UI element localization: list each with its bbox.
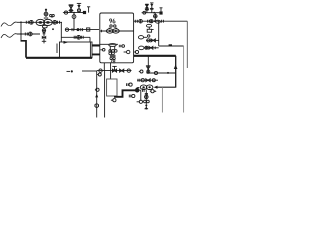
- flange F5: [81, 28, 83, 31]
- separator ellipse below L5: [146, 24, 151, 29]
- gauge G5: [72, 15, 76, 19]
- wire line L2: [17, 33, 40, 35]
- line L9: [158, 86, 176, 88]
- gauge G6: [65, 28, 68, 31]
- wire supply wavy line 2: [1, 34, 17, 38]
- gauge G8a on L5: [150, 20, 153, 23]
- top-right manifold M2: [144, 12, 160, 14]
- flange F1: [26, 21, 28, 24]
- dash and dot mid-left: [67, 70, 73, 72]
- gauge right of corner: [97, 73, 102, 76]
- gauge small left: [139, 70, 143, 73]
- flange right of pump P4: [143, 88, 145, 92]
- gauge G8: [156, 20, 161, 23]
- arrow up on V12: [174, 64, 178, 69]
- block right end M2: [159, 8, 162, 15]
- tank T1 (reservoir box): [60, 42, 93, 58]
- gauge G1 circle with cross: [29, 20, 33, 24]
- flange mid L5: [148, 20, 150, 23]
- valve chain below pump: small ellipse: [42, 25, 47, 28]
- filter box on L3: [87, 28, 90, 31]
- node J5: [167, 72, 169, 74]
- node dot small: [52, 28, 54, 30]
- flange on L8: [138, 79, 140, 82]
- valve glyph on V14 low: [95, 104, 99, 108]
- drop left V11: [147, 56, 149, 66]
- manifold line M1: [65, 12, 86, 14]
- gauge outside box right: [134, 50, 139, 53]
- valve stack E: [146, 66, 151, 74]
- tick on L4: [101, 30, 103, 32]
- wire supply wavy line 1: [1, 22, 17, 26]
- gauge left of manifold: [63, 11, 68, 14]
- dark valve bottom of stem: [145, 105, 149, 109]
- label 96: [110, 19, 116, 23]
- suction line L3: [66, 29, 100, 31]
- tank inner right wall: [89, 42, 91, 58]
- row3 line: [144, 47, 159, 49]
- gauge G7: [139, 19, 143, 23]
- valve2 on L11: [120, 69, 124, 72]
- node J4: [154, 20, 156, 22]
- pump feed line L4: [100, 30, 134, 32]
- gauge on bypass: [77, 35, 81, 39]
- flange-gauge above pump P4: [127, 83, 133, 86]
- wire chain stem: [43, 28, 45, 41]
- right drop V7: [186, 21, 188, 68]
- long discharge line L5: [134, 20, 188, 22]
- pump P3 double ellipse: [140, 85, 153, 90]
- valve on L8: [146, 79, 150, 82]
- circles pair on stem: [144, 100, 150, 103]
- wavy mark 4: [136, 87, 140, 89]
- drop V13 gray: [161, 87, 163, 112]
- flange F7: [162, 20, 164, 23]
- thick top of lower-right unit: [134, 55, 176, 57]
- gauge left end M2: [142, 11, 146, 14]
- drop V14: [96, 71, 98, 118]
- motor dots cluster: [109, 50, 117, 60]
- small box below separator: [147, 29, 153, 32]
- gauge G3: [42, 29, 45, 32]
- stub right of pump P4: [140, 90, 141, 101]
- flange F2: [58, 21, 60, 24]
- valve row2: [151, 39, 155, 42]
- pump P1 double ellipse cluster: [36, 19, 52, 25]
- flange F4: [72, 28, 74, 31]
- flange F3: [43, 32, 46, 33]
- cylinder tank C1: [109, 44, 116, 52]
- wire riser V1: [20, 22, 22, 41]
- line L10: [82, 70, 97, 72]
- arrow tick on L6: [169, 44, 172, 46]
- stem below pump P3: [145, 90, 147, 110]
- separator ellipse E2: [138, 35, 150, 39]
- gauge G4 on L2: [28, 32, 32, 36]
- flange row3b: [154, 47, 156, 50]
- gauge below pump P4: [137, 100, 143, 103]
- glyphs right of cylinder: [119, 45, 124, 48]
- pipe connector box to manifold left: [103, 63, 105, 71]
- gauge2 on L11: [127, 69, 130, 72]
- sensor stem above pump: [44, 9, 48, 20]
- drop right V12: [175, 56, 177, 88]
- arrow up on V14: [95, 94, 98, 98]
- thick pipe from accumulator: [114, 90, 135, 97]
- drop V15: [104, 71, 106, 118]
- valve cluster under label: [109, 25, 118, 28]
- separator ellipse row3: [139, 46, 144, 50]
- pipe connector box to manifold mid: [110, 63, 112, 71]
- twin pilot circles: [50, 15, 55, 18]
- gauge row3: [145, 46, 148, 49]
- valve dark bowtie: [42, 36, 46, 40]
- flange on bypass: [74, 36, 76, 39]
- flange on L2: [25, 33, 27, 36]
- right drop V10 gray: [183, 46, 185, 113]
- gauge left in box: [100, 49, 105, 52]
- valve stack A: [69, 5, 74, 13]
- block right end of manifold: [83, 11, 86, 14]
- valve stack D (relief): [150, 3, 154, 13]
- gauge row2: [147, 39, 150, 42]
- valve row3: [149, 46, 153, 49]
- valve stack B (relief): [77, 3, 81, 12]
- valve T on L11: [112, 66, 116, 72]
- flange-gauge below pump P4: [129, 94, 135, 97]
- bypass line above tank: [61, 37, 90, 42]
- pipe drop V6: [73, 13, 75, 30]
- gauge2 on L8: [152, 79, 155, 82]
- node dark dot on L3: [77, 28, 80, 31]
- line L7: [150, 72, 176, 74]
- under-box manifold L11: [97, 70, 132, 72]
- arrow flow right on tank top: [64, 41, 69, 44]
- stub pair tank right top: [92, 44, 100, 47]
- gauge on V15: [111, 99, 116, 102]
- pipe drop V4 into tank: [60, 22, 62, 42]
- flange on stem: [145, 94, 148, 95]
- node on M2: [153, 12, 155, 14]
- gauge on stem: [145, 95, 149, 99]
- accumulator rect: [107, 79, 117, 96]
- internal line above cylinder: [100, 43, 118, 45]
- valve stack C: [145, 4, 149, 13]
- tank inner wall: [56, 44, 58, 54]
- flange on bypass b: [82, 36, 84, 39]
- gauge on L8: [141, 79, 144, 82]
- node cross mark: [42, 39, 46, 43]
- gauge on L11: [99, 69, 102, 72]
- stem above block: [87, 7, 90, 13]
- line L8: [137, 79, 158, 81]
- line to right edge L6: [159, 45, 184, 47]
- small gauge row under line L9: [150, 90, 157, 93]
- gauge on L7: [153, 71, 158, 74]
- gauge in box right: [124, 50, 130, 53]
- enclosure box (machine unit): [100, 13, 134, 63]
- gauge on V14 mid: [95, 88, 99, 91]
- node J2: [20, 33, 22, 35]
- wire main line L1: [17, 21, 62, 23]
- arrow left into pump: [154, 86, 158, 89]
- pipe jog elbow: [21, 41, 27, 58]
- flange F6: [135, 20, 137, 23]
- label 78: [110, 59, 115, 63]
- stub pair tank right bottom: [92, 53, 100, 56]
- pump P2 double ellipse: [106, 29, 119, 33]
- pump P4 dark: [135, 88, 140, 93]
- row2 line: [146, 39, 159, 41]
- stem with gauge: [154, 13, 158, 22]
- node J3: [73, 12, 75, 14]
- gauge G2 circle with cross: [53, 20, 57, 24]
- drop V16: [110, 71, 112, 79]
- node J1: [20, 21, 22, 23]
- pipe thick bottom main: [26, 57, 92, 59]
- riser V9: [158, 21, 160, 46]
